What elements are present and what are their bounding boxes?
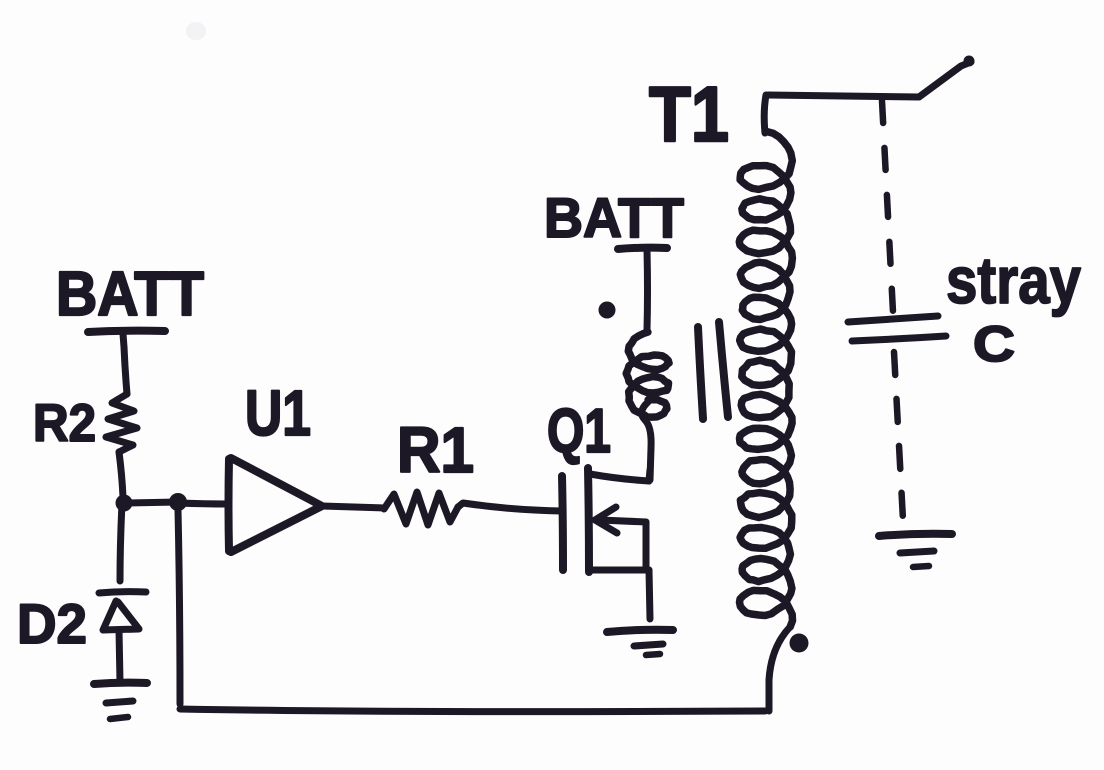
wire [642,402,651,480]
svg-text:R2: R2 [33,394,96,453]
diode D2 [99,592,146,682]
wire top output [768,62,971,97]
wire [124,502,178,503]
inductor T1 secondary winding [739,131,792,627]
svg-text:R1: R1 [397,414,474,486]
wire [322,506,384,508]
wire dashed stray C top [882,101,893,312]
inductor T1 primary winding [626,332,669,417]
battery BATT left terminal bar [88,331,165,332]
svg-text:stray: stray [946,243,1081,317]
transistor Q1 gate bar [562,476,563,570]
wire source down [649,570,650,619]
wire [123,334,127,394]
svg-text:D2: D2 [17,592,87,655]
wire feedback vertical [178,510,180,704]
ground (stray C) [879,534,952,567]
svg-text:C: C [973,316,1015,372]
wire [120,503,122,581]
wire [644,251,652,330]
transformer T1 core line 2 [719,322,728,417]
resistor R2 [106,394,137,452]
polarity dot (secondary) [790,634,809,653]
ground (under D2) [94,683,147,719]
capacitor stray C top plate [848,316,938,322]
wire [119,452,123,497]
node junction dot B [169,493,187,511]
ground (under Q1) [607,630,673,655]
svg-text:T1: T1 [649,70,729,158]
polarity dot (primary) [601,304,613,316]
transistor Q1 body arrow [600,520,646,522]
svg-text:BATT: BATT [544,186,684,249]
wire drain up [649,470,650,481]
wire [458,503,561,511]
wire body to source [643,522,650,570]
transistor Q1 drain stub [590,474,649,481]
wire [178,503,228,504]
transformer T1 core line 1 [698,327,703,419]
node junction dot A [116,495,133,512]
wire secondary top stub [764,95,766,133]
op-amp buffer U1 [229,458,323,552]
transistor Q1 channel bar [588,468,589,572]
battery BATT middle terminal bar [618,248,667,249]
svg-text:U1: U1 [245,377,311,449]
wire feedback bottom [180,709,765,712]
capacitor stray C bottom plate [852,336,946,341]
transistor Q1 source stub [589,567,649,574]
svg-text:BATT: BATT [56,260,204,329]
svg-text:Q1: Q1 [547,397,611,466]
resistor R1 [384,492,458,525]
wire secondary tail [769,627,790,711]
wire dashed stray C bottom [894,352,903,520]
node output end dot [964,56,975,67]
